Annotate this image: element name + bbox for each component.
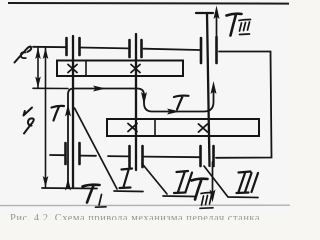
shaft III bbox=[207, 13, 210, 166]
shaft I bbox=[72, 36, 74, 188]
label T_III bottom : big T bbox=[192, 179, 208, 200]
upper gear block divider bbox=[85, 61, 87, 77]
arrowhead: down at shaft III bottom bbox=[210, 190, 216, 203]
dim arrowhead l1 bottom (down) bbox=[43, 176, 49, 188]
dimension line l2 bbox=[37, 48, 39, 88]
extension line at shaft axis y=88 (left of flow corner) bbox=[33, 87, 68, 89]
gear fix mark x (shaft II, lower block) bbox=[128, 124, 137, 132]
top page rule bbox=[8, 2, 289, 5]
lower gear block divider bbox=[154, 119, 156, 136]
gear fix mark x (shaft II, upper block) bbox=[131, 65, 140, 73]
lower gear block rectangle bbox=[107, 119, 259, 136]
arrowhead: output up at shaft III top bbox=[214, 6, 220, 20]
label l2 (rotated handwritten) bbox=[15, 47, 32, 63]
label shaft I (drawn strokes) bbox=[120, 169, 133, 189]
bottom support line (housing base) bbox=[50, 155, 199, 157]
label T_III bottom : subscript III strokes bbox=[200, 193, 213, 209]
label T_I bottom : big T bbox=[83, 185, 100, 203]
arrowhead: flow up along shaft I (mid) bbox=[65, 104, 71, 117]
label T (torque at shaft I) bbox=[52, 106, 65, 121]
bearing B2 top (shaft II) bbox=[130, 40, 142, 57]
shaft II bbox=[135, 34, 137, 170]
leader line for shaft II label bbox=[142, 164, 196, 197]
extension / shaft I input end line y=188 bbox=[42, 187, 97, 190]
bottom gray page rule bbox=[0, 204, 290, 206]
right housing line from shaft III top bearing down to bottom bearing bbox=[216, 52, 272, 158]
label shaft II (drawn strokes) bbox=[174, 171, 192, 193]
arrowhead: flow right on lower horizontal bbox=[167, 109, 180, 115]
bearing B2 bottom (shaft II) bbox=[130, 146, 143, 167]
arrowhead: flow down beside shaft II bbox=[141, 92, 147, 105]
dim arrowhead l2 bottom (down) bbox=[35, 77, 41, 89]
dim arrowhead l1 top (up) bbox=[43, 48, 49, 60]
upper gear block rectangle bbox=[57, 61, 183, 77]
bearing B3 top (shaft III) bbox=[201, 37, 217, 63]
label l1 (rotated handwritten) bbox=[24, 108, 33, 116]
arrowhead: flow up beside shaft III bbox=[211, 81, 217, 94]
top support line (housing) bbox=[33, 47, 200, 50]
dim arrowhead l2 top (up) bbox=[35, 48, 41, 60]
label T_III top : subscript III strokes bbox=[239, 20, 251, 35]
leader line for shaft I label bbox=[75, 108, 144, 192]
bearing B1 top (shaft I) bbox=[67, 38, 80, 55]
svg-text:Рис. 4.2. Схема привода механи: Рис. 4.2. Схема привода механизма переда… bbox=[10, 213, 260, 220]
label shaft III (drawn strokes) bbox=[237, 172, 259, 194]
leader line for shaft III label bbox=[204, 166, 258, 198]
shaft III top end bar bbox=[196, 12, 213, 14]
bearing B1 bottom (shaft I) bbox=[66, 143, 80, 164]
power flow line: up shaft I, right, down at shaft II, right, up at shaft III bbox=[68, 89, 214, 188]
bearing B3 bottom (shaft III) bbox=[201, 146, 214, 166]
label T (torque between stages) bbox=[174, 96, 189, 110]
gear fix mark x (shaft III, lower block) bbox=[199, 124, 208, 132]
down arrow line at shaft III bottom bbox=[212, 162, 214, 197]
output arrow line at shaft III top bbox=[216, 11, 218, 40]
label T_III top : big T bbox=[227, 14, 242, 36]
label T_I bottom : subscript I stroke bbox=[96, 195, 107, 208]
arrowhead: flow up along shaft I (bottom, input) bbox=[65, 178, 71, 191]
gear fix mark x (shaft I, upper block) bbox=[68, 65, 77, 73]
dimension line l1 bbox=[45, 48, 47, 187]
arrowhead: flow right on upper horizontal bbox=[93, 86, 106, 92]
